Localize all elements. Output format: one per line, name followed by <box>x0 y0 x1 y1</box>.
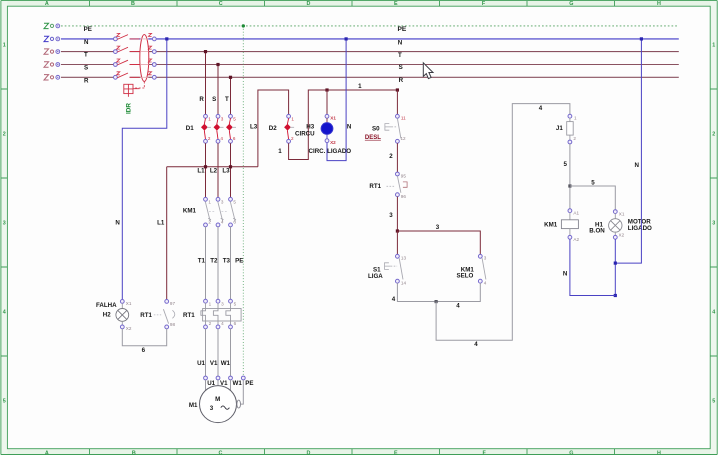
svg-text:V1: V1 <box>210 360 218 367</box>
svg-text:2: 2 <box>209 321 212 326</box>
motor terminal U1 <box>204 376 208 380</box>
svg-text:E: E <box>394 451 398 455</box>
node 5 split <box>568 184 571 187</box>
svg-text:3: 3 <box>210 405 214 412</box>
node N rail right <box>640 37 643 40</box>
svg-text:L3: L3 <box>250 123 258 130</box>
pushbutton S1 blade <box>399 258 403 279</box>
svg-text:4: 4 <box>221 321 224 326</box>
node S tap <box>216 63 219 66</box>
svg-text:T: T <box>225 96 229 103</box>
svg-text:1: 1 <box>574 116 577 121</box>
relay contact RT1 NO dashes <box>154 314 161 316</box>
SECTION: bottom left <box>96 37 175 354</box>
right number band <box>710 0 718 455</box>
svg-text:N: N <box>115 220 120 227</box>
pushbutton S0 terminal 11 <box>396 114 400 118</box>
svg-text:95: 95 <box>401 173 407 178</box>
svg-text:5: 5 <box>591 179 595 186</box>
svg-text:4: 4 <box>712 310 715 316</box>
svg-text:6: 6 <box>142 347 146 354</box>
svg-text:4: 4 <box>221 219 224 224</box>
svg-text:KM1: KM1 <box>183 208 197 215</box>
svg-text:5: 5 <box>3 399 6 405</box>
svg-text:X1: X1 <box>126 301 132 306</box>
relay contact RT1 97 terminal <box>165 300 169 304</box>
wire 3 vertical <box>396 197 398 231</box>
svg-text:S0: S0 <box>372 125 380 132</box>
svg-text:5: 5 <box>233 117 236 122</box>
relay contact RT1 95 terminal <box>396 172 400 176</box>
node N rail left <box>165 37 168 40</box>
svg-text:X1: X1 <box>619 211 625 216</box>
right row ticks <box>710 89 717 356</box>
svg-text:98: 98 <box>170 322 176 327</box>
pushbutton S0 plunger <box>385 124 392 131</box>
svg-text:E: E <box>394 1 398 7</box>
IDR trip linkage dashes <box>135 82 144 89</box>
svg-text:B.ON: B.ON <box>589 228 605 235</box>
motor terminal W1 <box>229 376 233 380</box>
svg-text:S: S <box>84 65 88 72</box>
lamp H2 terminal X2 <box>120 325 124 329</box>
lamp H1 body <box>614 214 616 219</box>
svg-text:PE: PE <box>235 258 243 265</box>
wire PE riser dotted <box>242 26 244 376</box>
pushbutton S0 terminal 12 <box>396 139 400 143</box>
wire L1 riser down <box>166 167 168 300</box>
svg-text:T1: T1 <box>198 258 206 265</box>
svg-text:5: 5 <box>233 200 236 205</box>
svg-text:B: B <box>132 451 136 455</box>
IDR pole S pin marks <box>117 59 152 62</box>
svg-text:12: 12 <box>401 136 407 141</box>
node wire4 <box>435 300 438 303</box>
wire T tap to fuse D1-1 <box>205 52 207 115</box>
wire RT1-4 down <box>217 329 219 376</box>
source terminal N <box>44 36 60 41</box>
wire PE rail (dashed green) <box>61 25 677 27</box>
coil KM1 terminal A1 <box>568 209 572 213</box>
cursor <box>423 63 433 79</box>
SECTION: rails <box>44 23 679 84</box>
svg-text:A2: A2 <box>573 237 579 242</box>
wire 6 <box>122 329 166 346</box>
svg-text:N: N <box>84 39 89 46</box>
svg-text:N: N <box>563 271 568 278</box>
contactor KM1 pole 1 <box>204 197 212 226</box>
wire node1 to S0 <box>396 90 398 114</box>
relay contact RT1 blade <box>397 176 401 193</box>
wire N right riser (blue) <box>615 39 641 263</box>
relay contact RT1 96 terminal <box>396 193 400 197</box>
top column ticks <box>90 1 615 7</box>
svg-text:RT1: RT1 <box>183 312 195 319</box>
svg-text:M: M <box>215 396 220 403</box>
SECTION: motor <box>189 376 254 423</box>
wire A2 to N (blue) <box>570 239 615 295</box>
node 3 split <box>396 229 399 232</box>
svg-text:T3: T3 <box>223 258 231 265</box>
svg-text:R: R <box>399 77 404 84</box>
IDR pole S blade <box>117 60 139 65</box>
svg-text:L1: L1 <box>197 168 205 175</box>
motor shaft <box>237 400 241 408</box>
svg-text:H2: H2 <box>103 312 111 319</box>
pushbutton S1 terminal 13 <box>396 254 400 258</box>
top column letters <box>45 1 661 7</box>
motor M1 body <box>200 386 237 423</box>
SECTION: right branch <box>544 37 652 297</box>
bottom column letters <box>45 451 661 455</box>
svg-text:D: D <box>307 1 311 7</box>
svg-text:2: 2 <box>208 136 211 141</box>
svg-text:4: 4 <box>3 310 6 316</box>
svg-text:IDR: IDR <box>126 103 133 114</box>
IDR pole T terminals <box>114 50 157 54</box>
fuse D1 pole 2 <box>214 114 224 143</box>
svg-text:1: 1 <box>3 43 6 49</box>
svg-text:5: 5 <box>234 301 237 306</box>
svg-text:A: A <box>45 1 49 7</box>
svg-text:X2: X2 <box>619 233 625 238</box>
left number band <box>0 0 7 455</box>
thermal relay RT1 body <box>203 309 242 322</box>
node L1 tap <box>204 165 207 168</box>
wire KM1-6 down <box>230 227 232 299</box>
node N bottom corner <box>614 294 617 297</box>
pushbutton S1 terminal 14 <box>396 279 400 283</box>
node H1 N junction <box>614 262 617 265</box>
fuse D1 pole 1 <box>201 114 211 143</box>
pushbutton S0 blade <box>397 118 401 138</box>
svg-text:1: 1 <box>209 301 212 306</box>
node S0 corner <box>396 88 399 91</box>
wire L3 riser up <box>258 90 289 167</box>
wire RT1-2 down <box>205 329 207 376</box>
svg-text:G: G <box>569 1 573 7</box>
wire 5 horizontal to H1 <box>570 186 615 210</box>
node R tap <box>229 76 232 79</box>
IDR pole N pin marks <box>117 33 152 36</box>
svg-text:C: C <box>218 451 222 455</box>
IDR core ellipse <box>140 35 149 82</box>
svg-text:3: 3 <box>712 221 715 227</box>
wire W1 stub <box>230 380 232 391</box>
svg-text:2: 2 <box>291 136 294 141</box>
svg-text:S: S <box>212 96 216 103</box>
IDR pole S terminals <box>114 63 157 67</box>
IDR pole T blade <box>117 47 139 52</box>
relay contact RT1 NO blade <box>163 309 168 323</box>
svg-text:1: 1 <box>712 43 715 49</box>
svg-text:11: 11 <box>401 115 406 120</box>
svg-text:3: 3 <box>221 117 224 122</box>
wire U1 stub <box>205 380 207 391</box>
svg-text:X1: X1 <box>330 115 336 120</box>
svg-text:W1: W1 <box>221 360 231 367</box>
wire D2 out to node 1 <box>289 90 398 160</box>
svg-text:A: A <box>45 451 49 455</box>
wire PE stub to frame <box>241 380 244 404</box>
thermal relay RT1 pole 1 <box>201 299 212 328</box>
svg-text:T: T <box>84 52 88 59</box>
svg-text:1: 1 <box>358 83 362 90</box>
svg-text:2: 2 <box>389 153 393 160</box>
source terminal T <box>44 49 60 54</box>
svg-text:97: 97 <box>170 301 176 306</box>
svg-text:4: 4 <box>474 341 478 348</box>
svg-text:X2: X2 <box>126 326 132 331</box>
thermal relay RT1 pole 3 <box>226 299 237 328</box>
contactor KM1 pole 3 <box>229 197 237 226</box>
left row ticks <box>1 89 8 356</box>
pushbutton S1 plunger <box>385 263 391 270</box>
source terminal S <box>44 62 60 67</box>
wire S tap to fuse D1-2 <box>217 65 219 115</box>
KM1 mechanical link dashes <box>209 211 228 213</box>
svg-text:3: 3 <box>221 301 224 306</box>
right row numbers <box>712 43 715 405</box>
IDR rail interruption masks <box>117 38 129 40</box>
wire N rail <box>61 38 679 40</box>
svg-text:1: 1 <box>208 200 211 205</box>
svg-text:U1: U1 <box>197 360 205 367</box>
IDR test button <box>124 84 140 97</box>
IDR pole N blade <box>117 35 139 40</box>
wire T rail <box>61 51 679 53</box>
IDR pole R blade <box>117 73 139 78</box>
svg-text:L1: L1 <box>157 220 165 227</box>
svg-text:N: N <box>635 162 640 169</box>
svg-text:2: 2 <box>3 132 6 138</box>
svg-text:W1: W1 <box>233 380 243 387</box>
wire H3 X2 to N (blue) <box>327 39 346 161</box>
svg-text:C: C <box>219 1 223 7</box>
IDR pole R pin marks <box>117 72 152 75</box>
svg-text:RT1: RT1 <box>369 183 381 190</box>
svg-text:1: 1 <box>291 117 294 122</box>
source terminal PE <box>44 23 60 28</box>
fuse J1 <box>567 114 577 144</box>
motor terminal PE <box>241 376 245 380</box>
wire S rail <box>61 64 679 66</box>
svg-text:1: 1 <box>208 117 211 122</box>
wire 5 vertical <box>569 144 571 209</box>
wire 4 route to fuse J1 <box>436 104 570 341</box>
SECTION: idr <box>114 33 157 114</box>
wire 2 <box>396 143 398 172</box>
node H3 tap <box>325 88 328 91</box>
svg-text:CIRC. LIGADO: CIRC. LIGADO <box>309 148 352 155</box>
svg-text:2: 2 <box>712 132 715 138</box>
svg-text:X2: X2 <box>330 140 336 145</box>
svg-text:3: 3 <box>221 200 224 205</box>
svg-text:L2: L2 <box>210 168 218 175</box>
svg-text:D2: D2 <box>269 125 277 132</box>
wire N to H2 (blue) <box>122 39 167 300</box>
svg-text:6: 6 <box>234 321 237 326</box>
svg-text:2: 2 <box>573 136 576 141</box>
motor tilde <box>221 406 230 409</box>
svg-text:CIRCU: CIRCU <box>295 130 315 137</box>
svg-text:5: 5 <box>564 161 568 168</box>
wire R rail <box>61 76 679 78</box>
motor terminal V1 <box>216 376 220 380</box>
fuse D2 <box>284 114 294 143</box>
thermal relay RT1 pole 2 <box>213 299 224 328</box>
svg-text:FALHA: FALHA <box>96 302 117 309</box>
svg-text:S: S <box>399 64 403 71</box>
IDR pole R terminals <box>114 75 157 79</box>
svg-text:N: N <box>347 124 352 131</box>
aux contact KM1 selo terminal 13 <box>478 254 482 258</box>
lamp H3 terminal X1 <box>325 114 329 118</box>
svg-text:R: R <box>84 77 89 84</box>
contactor KM1 pole 2 <box>216 197 224 226</box>
mouse pointer <box>423 63 433 79</box>
svg-text:KM1: KM1 <box>544 222 558 229</box>
lamp H1 terminal X1 <box>613 210 617 214</box>
node T tap <box>204 50 207 53</box>
svg-text:3: 3 <box>389 212 393 219</box>
bottom letter band <box>0 449 718 455</box>
wire D1-1 to KM1-1 <box>205 143 207 197</box>
top letter band <box>0 0 718 6</box>
node N tap H3 <box>345 37 348 40</box>
svg-text:DESL: DESL <box>365 135 381 141</box>
svg-text:A1: A1 <box>573 210 579 215</box>
svg-text:T2: T2 <box>210 258 218 265</box>
node PE tap <box>242 24 245 27</box>
wire H1 X2 to N <box>614 239 616 295</box>
svg-text:6: 6 <box>233 219 236 224</box>
svg-text:PE: PE <box>84 26 92 33</box>
svg-text:G: G <box>569 451 573 455</box>
svg-text:4: 4 <box>220 136 223 141</box>
wire H3 drop <box>326 90 328 114</box>
svg-text:J1: J1 <box>556 125 563 132</box>
svg-text:5: 5 <box>712 399 715 405</box>
svg-text:LIGA: LIGA <box>368 273 383 280</box>
aux contact KM1 selo blade <box>482 258 486 279</box>
svg-text:D: D <box>307 451 311 455</box>
lamp H2 body <box>121 303 123 308</box>
svg-text:13: 13 <box>401 255 407 260</box>
svg-text:H: H <box>657 1 661 7</box>
node L3 tap <box>229 165 232 168</box>
svg-text:1: 1 <box>278 148 282 155</box>
svg-text:SELO: SELO <box>457 272 474 279</box>
source terminal R <box>44 75 60 80</box>
lamp H3 body (lit) <box>326 118 328 123</box>
SECTION: control branch <box>269 37 616 348</box>
svg-text:4: 4 <box>484 281 487 286</box>
svg-text:L3: L3 <box>222 168 230 175</box>
wire 3 to S1 <box>396 231 398 254</box>
svg-text:3: 3 <box>484 255 487 260</box>
wire D1-3 to KM1-5 <box>230 143 232 197</box>
svg-text:N: N <box>398 39 403 46</box>
wire RT1-6 down <box>230 329 232 376</box>
lamp H2 terminal X1 <box>120 300 124 304</box>
svg-text:R: R <box>199 96 204 103</box>
svg-text:4: 4 <box>539 105 543 112</box>
svg-text:PE: PE <box>398 26 407 33</box>
left row numbers <box>3 43 6 405</box>
svg-text:96: 96 <box>401 194 407 199</box>
svg-text:3: 3 <box>436 224 440 231</box>
wire R tap to fuse D1-3 <box>230 77 232 114</box>
relay contact RT1 trip symbol <box>403 182 407 187</box>
svg-text:6: 6 <box>233 136 236 141</box>
svg-text:PE: PE <box>245 380 253 387</box>
svg-text:T: T <box>398 52 402 59</box>
svg-text:4: 4 <box>392 296 396 303</box>
wire control tap horizontal <box>167 166 258 168</box>
IDR pole lines through core <box>140 39 148 77</box>
svg-text:14: 14 <box>401 281 407 286</box>
wire KM1-2 down <box>205 227 207 299</box>
svg-text:B: B <box>131 1 135 7</box>
wire KM1-4 down <box>217 227 219 299</box>
coil KM1 terminal A2 <box>568 235 572 239</box>
aux contact KM1 selo terminal 14 <box>478 279 482 283</box>
svg-text:2: 2 <box>208 219 211 224</box>
IDR pole N terminals <box>114 37 157 41</box>
svg-text:D1: D1 <box>186 125 194 132</box>
coil KM1 body <box>569 213 571 220</box>
relay contact RT1 link dashes <box>387 185 396 187</box>
svg-text:M1: M1 <box>189 402 198 409</box>
wire 4 net (de-energized) <box>397 283 480 301</box>
IDR pole T pin marks <box>117 46 152 49</box>
svg-text:4: 4 <box>456 302 460 309</box>
wire 3 horizontal <box>397 231 480 254</box>
wire V1 stub <box>217 380 219 386</box>
SECTION: power branch <box>157 24 289 376</box>
relay contact RT1 NO arc <box>172 310 174 318</box>
relay contact RT1 98 terminal <box>165 325 169 329</box>
wire D1-2 to KM1-3 <box>217 143 219 197</box>
svg-text:3: 3 <box>3 221 6 227</box>
fuse D1 pole 3 <box>226 114 236 143</box>
svg-text:H: H <box>657 451 661 455</box>
svg-text:RT1: RT1 <box>140 312 152 319</box>
svg-text:LIGADO: LIGADO <box>628 225 652 232</box>
lamp H1 terminal X2 <box>613 235 617 239</box>
lamp H3 terminal X2 <box>325 139 329 143</box>
bottom column ticks <box>90 449 615 455</box>
